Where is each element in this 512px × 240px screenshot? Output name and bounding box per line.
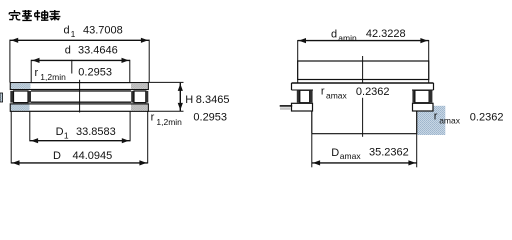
left ear roller xyxy=(300,90,310,102)
svg-text:1,2min: 1,2min xyxy=(156,117,182,127)
upper washer bottom line right ear xyxy=(412,89,434,91)
upper slab rectangle xyxy=(298,61,429,80)
dimension d arrow right xyxy=(122,58,129,63)
dimension H arrow top xyxy=(178,84,183,91)
dimension D extension line right xyxy=(147,112,149,164)
dimension D_amax line xyxy=(312,162,417,164)
dimension d_amin extension line left xyxy=(297,40,299,83)
stray blue block at image left edge xyxy=(0,93,3,102)
top washer left hatch (blue) xyxy=(11,83,31,89)
svg-text:43.7008: 43.7008 xyxy=(83,24,123,36)
svg-text:r: r xyxy=(321,86,325,98)
dimension H arrow bottom xyxy=(178,103,183,110)
dimension D arrow right xyxy=(139,160,146,165)
upper washer bottom line left ear xyxy=(292,89,314,91)
dimension D1 line xyxy=(30,140,130,142)
bearing top edge xyxy=(292,82,434,84)
right cage bar B xyxy=(146,91,148,103)
top washer right hatch (gray) xyxy=(131,83,148,89)
svg-text:r: r xyxy=(434,111,438,123)
svg-text:D: D xyxy=(56,126,64,138)
svg-text:0.2362: 0.2362 xyxy=(356,86,390,98)
dimension H extension line bottom xyxy=(148,110,183,112)
dimension D_amax extension line right xyxy=(416,134,418,168)
svg-text:d: d xyxy=(65,45,71,57)
left ear cage bar B xyxy=(309,90,312,102)
svg-text:d: d xyxy=(64,24,70,36)
dimension d arrow left xyxy=(32,58,39,63)
centerline left figure xyxy=(79,80,81,113)
svg-text:D: D xyxy=(53,150,61,162)
svg-text:1: 1 xyxy=(64,131,69,141)
dimension d1 line xyxy=(10,39,149,41)
dimension d_amin line xyxy=(298,40,429,42)
svg-text:0.2953: 0.2953 xyxy=(193,112,227,124)
dimension D1 extension line right xyxy=(129,112,131,142)
roller band bottom line xyxy=(31,101,131,103)
dimension d extension line left xyxy=(30,60,32,83)
blue fillet square r_a xyxy=(417,106,446,135)
shaft seat stub gray remnant xyxy=(280,107,291,109)
svg-text:35.2362: 35.2362 xyxy=(369,147,409,159)
lower washer right ear xyxy=(413,103,434,111)
dimension D extension line left xyxy=(10,112,12,164)
dimension d_amin arrow right xyxy=(420,38,427,43)
left cage bar B xyxy=(28,91,31,103)
svg-text:r: r xyxy=(35,67,39,79)
right roller xyxy=(134,91,146,103)
svg-text:d: d xyxy=(331,28,337,40)
leader tick below d line xyxy=(71,60,73,74)
svg-text:r: r xyxy=(151,111,155,123)
bottom washer right hatch (gray) xyxy=(131,105,148,111)
shaft seat stub line xyxy=(280,105,293,107)
roller band top line xyxy=(31,90,131,92)
dimension D_amax arrow left xyxy=(313,160,320,165)
bearing bottom washer outline xyxy=(10,104,148,111)
svg-text:D: D xyxy=(331,147,339,159)
dimension d line xyxy=(31,59,130,61)
svg-text:amin: amin xyxy=(338,33,357,43)
svg-text:8.3465: 8.3465 xyxy=(196,94,230,106)
bearing top washer outline xyxy=(10,83,148,90)
bottom washer left hatch (blue) xyxy=(11,105,30,111)
svg-text:44.0945: 44.0945 xyxy=(73,150,113,162)
dimension D1 arrow left xyxy=(31,138,38,143)
dimension D1 extension line left xyxy=(29,112,31,142)
housing block right edge xyxy=(416,111,418,134)
left roller xyxy=(14,91,29,103)
dimension D line xyxy=(11,162,148,164)
dimension H line xyxy=(179,83,181,111)
svg-text:H: H xyxy=(185,94,193,106)
right ear cage bar B xyxy=(429,90,432,102)
left ear cage bar A xyxy=(297,90,300,102)
centerline right figure xyxy=(362,56,364,83)
housing block bottom edge xyxy=(312,133,417,135)
svg-text:1,2min: 1,2min xyxy=(40,72,66,82)
dimension D arrow left xyxy=(12,160,19,165)
dimension d1 arrow right xyxy=(141,38,148,43)
lower washer left ear xyxy=(292,103,313,111)
right ear cage bar A xyxy=(412,90,415,102)
title 完整轴承 (pseudo CJK glyphs) xyxy=(9,10,60,21)
svg-text:1: 1 xyxy=(71,29,76,39)
dimension H extension line top xyxy=(148,81,183,83)
svg-text:0.2362: 0.2362 xyxy=(470,111,504,123)
right cage bar A xyxy=(131,91,134,103)
upper washer right edge xyxy=(433,83,435,90)
svg-text:33.4646: 33.4646 xyxy=(78,45,118,57)
svg-text:amax: amax xyxy=(326,91,348,101)
housing block left edge xyxy=(311,111,313,134)
dimension D_amax arrow right xyxy=(408,160,415,165)
dimension D_amax extension line left xyxy=(311,134,313,168)
left cage bar A xyxy=(10,91,13,103)
svg-text:42.3228: 42.3228 xyxy=(366,28,406,40)
svg-text:amax: amax xyxy=(340,151,362,161)
dimension d1 arrow left xyxy=(11,38,18,43)
svg-text:0.2953: 0.2953 xyxy=(78,66,112,78)
dimension d extension line right xyxy=(129,60,131,83)
svg-text:amax: amax xyxy=(439,116,461,126)
dimension d1 extension line right xyxy=(148,40,150,83)
dimension d1 extension line left xyxy=(9,40,11,83)
right ear roller xyxy=(415,90,429,102)
dimension d_amin extension line right xyxy=(428,40,430,83)
dimension D1 arrow right xyxy=(122,138,129,143)
svg-text:33.8583: 33.8583 xyxy=(76,126,116,138)
dimension d_amin arrow left xyxy=(299,38,306,43)
upper washer left edge xyxy=(291,83,293,90)
